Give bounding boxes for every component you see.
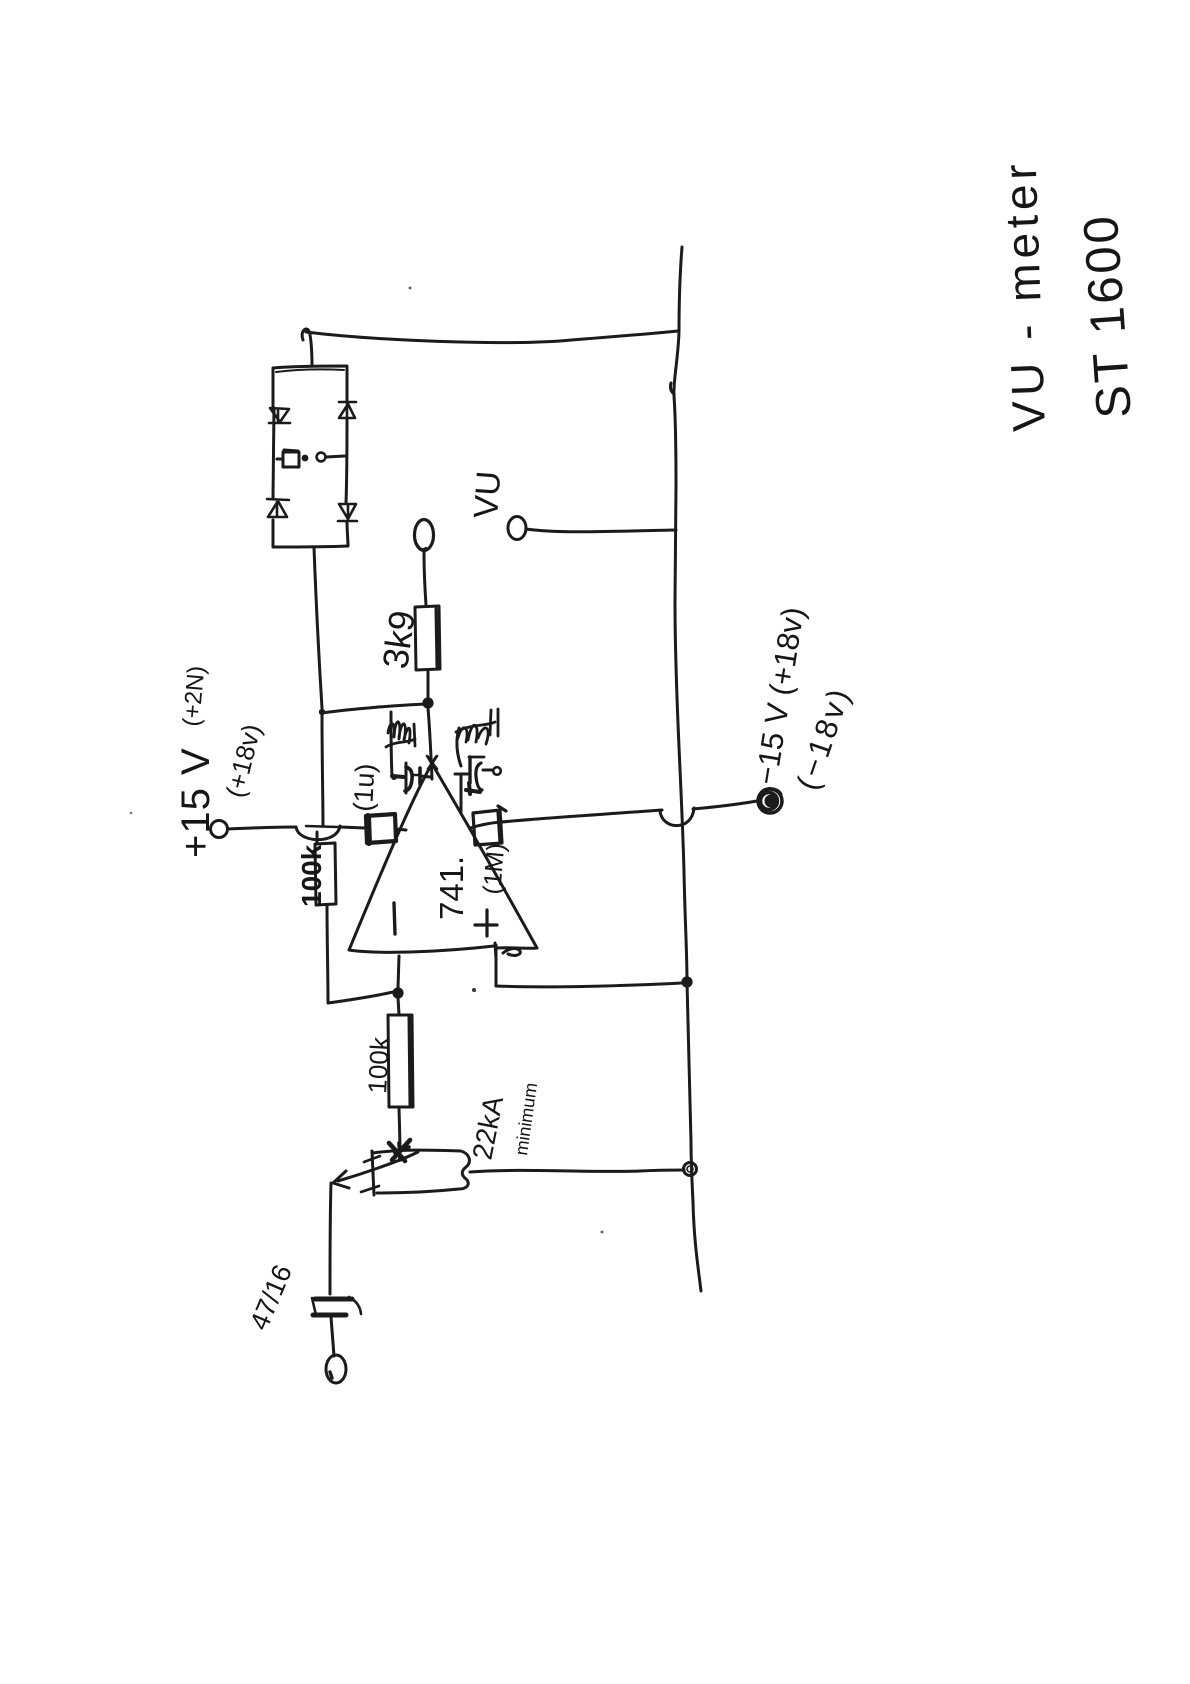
- terminal VU- (ellipse): [508, 517, 526, 540]
- wire: 3k9 top lead to VU+ terminal: [424, 552, 426, 605]
- svg-text:(1M): (1M): [478, 842, 510, 896]
- wire: feedback corner to output node: [328, 992, 393, 1003]
- bus junction dot: [681, 976, 692, 987]
- output node junction dot: [392, 987, 403, 998]
- wire: 1M box to bus with hop: [502, 810, 662, 822]
- op-amp bottom-right hook: [503, 949, 520, 956]
- svg-text:741.: 741.: [433, 856, 470, 920]
- svg-text:47/16: 47/16: [244, 1260, 298, 1334]
- diode top-left: [269, 408, 290, 423]
- wire: +15V terminal to series box: [228, 827, 296, 829]
- ground bus (right vertical rail): [674, 247, 701, 1291]
- wire: hop to -15V terminal: [693, 801, 757, 809]
- resistor 3k9 body: [415, 606, 440, 670]
- wire: 3k9 bottom lead to node B: [427, 670, 430, 700]
- svg-text:3k9: 3k9: [374, 608, 423, 671]
- diode bottom-right: [338, 504, 357, 521]
- svg-text:(+18v): (+18v): [220, 721, 267, 800]
- svg-text:(+2N): (+2N): [178, 665, 210, 728]
- svg-text:22kA: 22kA: [466, 1093, 509, 1162]
- wire: VU- terminal to bus: [526, 529, 676, 532]
- diode bottom-left: [267, 499, 289, 517]
- wire: node A to 3k9 node: [322, 704, 426, 713]
- wire: hook + drop from top wire into bridge top: [302, 329, 312, 366]
- C1 lead to output line, crossing marks: [421, 776, 430, 777]
- wire: left wire from arrow down to capacitor 47/16: [330, 1183, 331, 1294]
- input cap C2 on + side: drop from + wire: [460, 775, 463, 812]
- wire: node B down to op-amp output apex: [428, 708, 432, 779]
- resistor 100k (lower) leads and body: [398, 998, 399, 1014]
- bridge rectifier outline: [273, 366, 348, 547]
- node B junction dot: [422, 697, 433, 708]
- terminal (input jack) ellipse: [326, 1355, 346, 1383]
- wire: op-amp output stub: [398, 956, 399, 988]
- C1 value scribble label: [386, 722, 415, 747]
- C2 value scribble label: [456, 709, 498, 744]
- speck dots: [409, 287, 412, 290]
- capacitor 47/16 plates: [315, 1297, 352, 1302]
- op-amp base right tick (+input pin crossing): [495, 943, 496, 959]
- P1 wiper diagonal arrow to left wire: [338, 1152, 418, 1181]
- resistor 100k (feedback) body: [315, 832, 336, 905]
- series capacitor box on inverting input: [366, 814, 396, 843]
- svg-text:(−18v): (−18v): [790, 682, 858, 794]
- op-amp minus mark: [394, 903, 395, 934]
- wire: feedback vertical from node A down to 100k: [322, 714, 323, 826]
- P1 wiper arrowhead onto body: [389, 1140, 410, 1161]
- op-amp U1 741 triangle: [349, 757, 537, 952]
- diode top-right: [339, 402, 356, 418]
- node A junction tick: [319, 709, 325, 715]
- C1 curved plate: [405, 767, 412, 791]
- C1 straight plate: [418, 768, 422, 784]
- terminal +15V (input circle): [211, 821, 228, 838]
- svg-text:+15 V: +15 V: [174, 747, 218, 858]
- svg-text:minimum: minimum: [511, 1081, 541, 1156]
- svg-text:100k: 100k: [296, 844, 327, 907]
- svg-text:ST 1600: ST 1600: [1074, 211, 1142, 420]
- wire hop arc over feedback line: [296, 826, 340, 840]
- wire: capacitor to terminal: [331, 1317, 334, 1356]
- wire: op-amp right edge to 1M box: [470, 822, 500, 828]
- bus pen-skip hook: [670, 383, 674, 394]
- wire: op-amp +pin down and right to bus: [496, 945, 682, 987]
- svg-text:VU - meter: VU - meter: [994, 158, 1055, 432]
- potentiometer P1 22kA body: [373, 1150, 469, 1193]
- svg-text:100k: 100k: [362, 1035, 395, 1094]
- svg-text:VU: VU: [467, 470, 508, 520]
- wire: top horizontal wire from bridge to ground bus: [306, 331, 678, 343]
- wire: series box to op-amp minus input: [396, 829, 406, 830]
- op-amp plus mark: [475, 910, 497, 936]
- wire: 100k bottom to feedback corner: [327, 905, 328, 1002]
- C2 heavy marks: [466, 783, 480, 794]
- meter M1 inside bridge: stub, square body, terminals: [277, 450, 299, 467]
- svg-text:(1u): (1u): [348, 763, 380, 813]
- terminal -15V (scribbled circle): [758, 789, 782, 813]
- bridge top edge double stroke: [276, 369, 344, 372]
- terminal VU+ (ellipse): [415, 520, 434, 551]
- feedback capacitor C1: drop from node wire: [391, 712, 392, 775]
- wire: bridge bottom to node A: [314, 548, 322, 708]
- wire hop arc over bus: [660, 808, 694, 826]
- C2 plates: [468, 757, 471, 783]
- resistor box (1M) on + input: [473, 806, 506, 845]
- bus connection loop (small circle): [684, 1163, 697, 1176]
- wire: pot right end to bus: [470, 1170, 684, 1172]
- C2 stub and open dot: [483, 769, 492, 772]
- C2 top curve: [457, 728, 461, 766]
